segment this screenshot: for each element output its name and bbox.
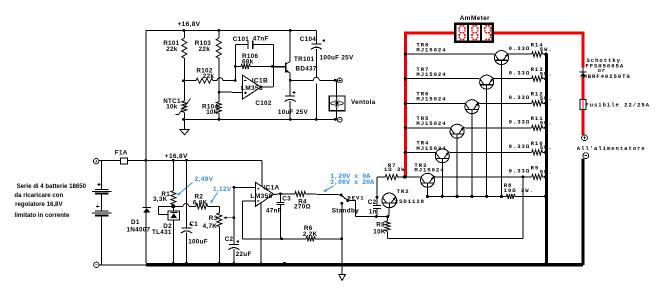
label 47nF (C3): [266, 208, 282, 215]
wire ref node to R2: [175, 204, 196, 207]
wire red main + (right segment): [493, 32, 584, 35]
svg-text:TR2: TR2: [397, 188, 410, 195]
switch DEV1: [340, 194, 350, 205]
label 47nF (C101): [253, 36, 269, 43]
label All alimentatore: [577, 145, 646, 152]
annotation 3,06V x 20A: [330, 179, 375, 187]
label R101 22k: [163, 40, 179, 53]
svg-text:0.33Ω: 0.33Ω: [509, 119, 531, 126]
label R4 270: [294, 198, 311, 210]
label 0.33 (R11): [509, 119, 531, 126]
resistor R2: [196, 204, 219, 209]
resistor R101: [182, 30, 187, 80]
label MJ15024 (TR6): [416, 96, 446, 103]
wire emitter row TR3: [433, 176, 532, 177]
wire fuse to +16.8V node: [128, 160, 146, 162]
wire red base bus vertical: [404, 32, 407, 178]
label C104: [300, 36, 316, 43]
svg-text:regolatore 16,8V: regolatore 16,8V: [15, 201, 63, 208]
svg-text:MBRF40250TG: MBRF40250TG: [583, 73, 630, 80]
wire emitter row TR8: [507, 53, 532, 54]
wire emitter row TR5: [462, 127, 532, 128]
label 10uF 25V (C102): [278, 109, 309, 116]
label 5W (R14): [540, 46, 553, 53]
terminal + All alimentatore: [582, 135, 588, 141]
resistor R8 10K: [385, 217, 390, 239]
label R8 10K: [373, 222, 386, 236]
svg-text:3,3K: 3,3K: [153, 196, 168, 203]
label TR3: [414, 162, 427, 169]
svg-text:MJ15024: MJ15024: [414, 167, 444, 174]
svg-text:5W.: 5W.: [540, 46, 553, 53]
svg-text:1N4007: 1N4007: [127, 227, 151, 234]
wire thick - return vertical: [581, 159, 584, 265]
label 0.33 (R12): [509, 94, 531, 101]
transistor TR7 MJ15024: [480, 75, 494, 89]
label MJ15024 (TR5): [416, 120, 446, 127]
svg-text:+16,8V: +16,8V: [178, 21, 201, 28]
label R102 22k: [196, 67, 214, 80]
node R11 / output bus: [544, 126, 547, 129]
label R8 (power): [504, 182, 513, 189]
wire divider vertical: [233, 187, 235, 244]
label MJ15024 (TR7): [416, 71, 446, 78]
node D2 anode / bus: [172, 262, 175, 265]
svg-text:C101: C101: [233, 36, 249, 43]
svg-text:100uF: 100uF: [188, 239, 208, 246]
label F1A: [115, 149, 128, 156]
svg-text:+16,8V: +16,8V: [165, 153, 188, 160]
label LM358 (IC1A): [250, 193, 272, 200]
resistor R7 1ohm 3W: [377, 175, 404, 180]
label Schottky: [587, 57, 621, 64]
fan Ventola: [329, 80, 345, 119]
svg-text:0.33Ω: 0.33Ω: [509, 45, 531, 52]
node F1A / left vertical / rail: [144, 159, 147, 162]
label D1: [131, 219, 140, 226]
node collector TR6 / bus: [470, 195, 473, 198]
terminal battery + to F1A: [94, 159, 99, 164]
resistor R12 0.33: [532, 101, 546, 106]
svg-text:F1A: F1A: [115, 149, 128, 156]
wire emitter row TR6: [477, 102, 532, 103]
node R106/C101 left: [234, 65, 237, 68]
svg-text:0.33Ω: 0.33Ω: [509, 70, 531, 77]
capacitor C101: [235, 40, 273, 49]
thermistor NTC1: [176, 81, 191, 120]
wire base row TR6: [407, 102, 465, 104]
label R11: [531, 115, 544, 122]
node R10 / output bus: [544, 151, 547, 154]
label R7: [388, 162, 397, 169]
svg-text:10uF 25V: 10uF 25V: [278, 109, 309, 116]
fuse F1A: [120, 158, 127, 164]
transistor TR2 2SD1128: [382, 193, 397, 217]
node C2 / bus: [232, 262, 235, 265]
wire collector TR8: [501, 64, 503, 196]
wire red main + (left segment): [404, 32, 455, 35]
label da ricaricare con: [14, 192, 63, 199]
svg-text:2SD1128: 2SD1128: [395, 198, 425, 205]
svg-text:C1: C1: [189, 221, 198, 228]
wire battery + to fuse: [99, 160, 120, 162]
resistor R104: [216, 81, 221, 120]
node output bus / bottom bus: [545, 262, 549, 266]
label C1: [189, 221, 198, 228]
wire feedback bottom run: [243, 238, 307, 240]
wire collector bus: [428, 195, 507, 197]
transistor TR101: [272, 30, 290, 80]
node top rail / R101: [182, 29, 185, 32]
node collector TR4 / bus: [441, 195, 444, 198]
svg-text:47nF: 47nF: [253, 36, 269, 43]
svg-text:LM358: LM358: [241, 85, 263, 92]
diode D1 1N4007: [143, 160, 151, 263]
node (stray) on bus: [283, 262, 286, 265]
svg-text:limitato in corrente: limitato in corrente: [15, 212, 70, 219]
svg-text:100uF 25V: 100uF 25V: [320, 55, 354, 62]
label 0.33 (R13): [509, 70, 531, 77]
trimmer R3 4,7K: [217, 206, 234, 263]
svg-text:4,7K: 4,7K: [203, 223, 218, 230]
wire collector TR6: [471, 113, 473, 196]
label TR6: [416, 91, 429, 98]
resistor R106: [235, 64, 285, 69]
label MBRF40250TG: [583, 73, 630, 80]
svg-text:MJ15024: MJ15024: [416, 96, 446, 103]
resistor R103: [216, 30, 221, 80]
node IC1A out / C3: [279, 192, 282, 195]
label R106 68k: [242, 53, 258, 66]
op-amp IC1B: [243, 75, 261, 99]
label Fusibile 22/25A: [585, 101, 650, 108]
terminal fan + connector: [337, 78, 342, 83]
svg-text:Fusibile 22/25A: Fusibile 22/25A: [585, 101, 650, 108]
svg-text:270Ω: 270Ω: [294, 203, 311, 210]
capacitor C1 100uF: [181, 160, 192, 263]
wire feedback left vertical (IC1B): [234, 45, 236, 81]
svg-text:C2: C2: [368, 199, 377, 206]
wire red Schottky to fuse to + terminal: [582, 77, 585, 135]
svg-text:C104: C104: [300, 36, 316, 43]
label 1n: [369, 209, 377, 216]
terminal fan - connector: [337, 117, 342, 122]
label MJ15024 (TR4): [416, 145, 446, 152]
capacitor C3 47nF: [277, 194, 285, 239]
label AmMeter: [460, 15, 490, 22]
label MJ15024 (TR3): [414, 167, 444, 174]
node collector TR5 / bus: [456, 195, 459, 198]
svg-text:1Ω 3W: 1Ω 3W: [384, 166, 406, 173]
transistor TR6 MJ15024: [465, 100, 479, 114]
label NTC1 10k: [163, 98, 181, 111]
wire base row TR7: [407, 78, 480, 80]
label 100uF 25V (C104): [320, 55, 354, 62]
resistor R13 0.33: [532, 76, 546, 81]
svg-text:10K: 10K: [373, 228, 386, 235]
label Standby: [332, 207, 359, 214]
svg-text:6,8K: 6,8K: [193, 200, 208, 207]
label TR5: [416, 115, 429, 122]
wire red right vertical to Schottky: [582, 32, 585, 68]
wire feedback vertical (IC1A): [242, 201, 244, 239]
svg-text:22uF: 22uF: [236, 251, 252, 258]
wire TR101 emitter to fan +: [290, 77, 335, 80]
label 1ohm 3W: [384, 166, 406, 173]
transistor TR8 MJ15024: [495, 51, 509, 65]
node R9 / output bus: [544, 175, 547, 178]
wire +16,8V top rail: [146, 29, 316, 31]
capacitor C2 22uF: [228, 240, 239, 263]
label 5W (R10): [540, 144, 553, 151]
label TR101: [294, 56, 315, 63]
svg-text:C3: C3: [282, 196, 291, 203]
label R1 3,3K: [153, 191, 170, 203]
node red bus / TR4 base: [404, 151, 407, 154]
node red bus / TR6 base: [404, 102, 407, 105]
node red bus / TR7 base: [404, 77, 407, 80]
resistor R9 0.33: [532, 174, 546, 179]
wire emitter row TR4: [447, 151, 531, 152]
wire collector TR4: [441, 163, 443, 197]
label R103 22k: [195, 40, 211, 53]
label Ventola: [351, 99, 376, 106]
resistor R6 2,2K: [306, 236, 342, 241]
svg-text:Ventola: Ventola: [351, 99, 376, 106]
label LM358 (IC1B): [241, 85, 263, 92]
node collector bus / output bus: [544, 195, 547, 198]
svg-text:1,12V: 1,12V: [213, 186, 232, 193]
wire DEV1 common to TR2 emitter node: [348, 201, 388, 217]
label 5W (R12): [540, 95, 553, 102]
node TR2 bottom / R8: [386, 215, 389, 218]
label C3: [282, 196, 291, 203]
wire IC1A output: [274, 191, 341, 196]
wire IC1B + input: [219, 91, 243, 93]
wire emitter row TR7: [492, 78, 532, 79]
node C104 / ground wire: [315, 118, 318, 121]
wire base row TR3: [407, 176, 421, 178]
node R103-R104 / IC1B+ tap: [218, 91, 221, 94]
label 5W (R9): [540, 169, 553, 176]
wire battery - to bottom bus: [99, 264, 147, 266]
label R2 6,8K: [193, 194, 208, 207]
node NTC1 / ground wire: [182, 118, 185, 121]
node C102 / ground wire: [289, 118, 292, 121]
node TR2 base / C2 / R7: [376, 196, 379, 199]
svg-text:1n: 1n: [369, 209, 377, 216]
svg-text:0.33Ω: 0.33Ω: [509, 143, 531, 150]
wire collector TR7: [486, 89, 488, 196]
svg-text:2,2K: 2,2K: [303, 231, 318, 238]
node collector TR3 / bus: [426, 195, 429, 198]
ground symbol (bottom): [339, 266, 346, 280]
capacitor C104: [311, 30, 325, 119]
wire left vertical from top rail to F1A node: [145, 30, 147, 160]
node fan + terminal: [334, 79, 337, 82]
svg-text:BD437: BD437: [296, 65, 317, 72]
node TR101 emitter / C102: [289, 79, 292, 82]
svg-text:D1: D1: [131, 219, 140, 226]
label FFSH5065A: [585, 63, 624, 70]
label C2 (1n): [368, 199, 377, 206]
node R3 / bus: [218, 262, 221, 265]
svg-text:TL431: TL431: [152, 229, 172, 236]
node rail / C1: [185, 159, 188, 162]
label C101: [233, 36, 249, 43]
wire collector TR5: [456, 138, 458, 196]
label C2 (22uF): [225, 236, 234, 243]
svg-text:68k: 68k: [242, 59, 254, 66]
label R3 4,7K: [203, 215, 218, 230]
wire IC1B output: [261, 86, 273, 88]
node C1 / bus: [185, 262, 188, 265]
resistor R10 0.33: [532, 150, 546, 155]
resistor R8 10ohm 3W: [506, 194, 545, 199]
label R10: [531, 140, 544, 147]
svg-text:MJ15024: MJ15024: [416, 47, 446, 54]
wire collector TR3: [427, 187, 429, 196]
label C102: [255, 100, 271, 107]
label 0.33 (R14): [509, 45, 531, 52]
label 22uF: [236, 251, 252, 258]
node C2 bottom / DEV1 wire: [375, 215, 378, 218]
annotation 1,12V: [210, 186, 232, 203]
wire divider node to IC1A +: [234, 186, 256, 188]
label 5W (R11): [540, 120, 553, 127]
wire current sense run: [388, 177, 524, 239]
ground symbol (top section): [180, 119, 189, 134]
transistor TR3 MJ15024: [421, 173, 435, 187]
node collector TR7 / bus: [485, 195, 488, 198]
annotation arrow to output wire: [323, 186, 333, 192]
resistor R102: [184, 78, 235, 84]
label Serie di 4 batterie 18650: [17, 183, 87, 190]
node R101/NTC1/R102: [182, 79, 185, 82]
node sense / TR3 row: [522, 176, 525, 179]
svg-text:Serie di 4 batterie 18650: Serie di 4 batterie 18650: [17, 183, 87, 190]
svg-text:10k: 10k: [206, 109, 218, 116]
label R104 10k: [202, 104, 218, 116]
label or: [598, 67, 607, 74]
label TL431: [152, 229, 172, 236]
label limitato in corrente: [15, 212, 70, 219]
svg-text:22k: 22k: [203, 73, 215, 80]
node R104 / ground wire: [218, 118, 221, 121]
svg-text:R9: R9: [531, 164, 540, 171]
annotation 1,20V x 0A: [330, 173, 371, 181]
node rail / R1: [172, 159, 175, 162]
node IC1A V- / bottom bus: [260, 262, 263, 265]
label MJ15024 (TR8): [416, 47, 446, 54]
terminal battery -: [94, 262, 99, 267]
node R1 / D2 / R2 (2,49V ref): [172, 205, 176, 208]
node red bus / R7 / TR3 row: [403, 175, 406, 178]
label IC1A: [263, 184, 279, 191]
label 2SD1128: [395, 198, 425, 205]
node R14 / output bus: [544, 53, 547, 56]
svg-text:2,49V: 2,49V: [195, 176, 214, 183]
node red bus / TR3 base: [404, 175, 407, 178]
capacitor C102 10uF: [285, 80, 296, 119]
svg-text:22k: 22k: [199, 46, 211, 53]
node R3 wiper / C2: [232, 216, 235, 219]
shunt regulator D2 TL431: [159, 206, 180, 263]
svg-text:47nF: 47nF: [266, 208, 282, 215]
label +16,8V (top): [178, 21, 201, 28]
svg-text:MJ15024: MJ15024: [416, 71, 446, 78]
wire IC1A inverting input: [243, 200, 256, 202]
wire standby node to bottom bus: [341, 239, 343, 263]
label BD437: [296, 65, 317, 72]
svg-text:R3: R3: [209, 215, 218, 222]
capacitor C2 1n: [373, 177, 381, 217]
svg-text:da ricaricare con: da ricaricare con: [14, 192, 63, 199]
svg-text:LM358: LM358: [250, 193, 272, 200]
label TR4: [416, 140, 429, 147]
label 1N4007: [127, 227, 151, 234]
wire thick output bus vertical: [543, 54, 547, 263]
label R14: [531, 42, 544, 49]
wire thick bottom bus: [146, 263, 583, 267]
svg-text:MJ15024: MJ15024: [416, 120, 446, 127]
svg-text:3,06V x 20A: 3,06V x 20A: [330, 179, 375, 187]
svg-text:10Ω 3W.: 10Ω 3W.: [504, 187, 534, 194]
transistor TR5 MJ15024: [450, 124, 464, 138]
label R9: [531, 164, 540, 171]
wire base row TR8: [407, 53, 495, 55]
label R6 2,2K: [303, 225, 318, 238]
label 5W (R13): [540, 71, 553, 78]
label TR8: [416, 42, 429, 49]
ammeter 7-segment display: [455, 24, 492, 42]
node top rail / R103: [217, 29, 220, 32]
label R12: [531, 91, 544, 98]
battery 4x18650: [92, 161, 112, 265]
svg-text:22k: 22k: [166, 46, 178, 53]
label D2: [163, 223, 172, 230]
label TR7: [416, 66, 429, 73]
label R13: [531, 66, 544, 73]
resistor R14 0.33: [532, 52, 546, 57]
label 0.33 (R10): [509, 143, 531, 150]
label +16,8V (mid): [165, 153, 188, 160]
wire +16,8V mid rail: [146, 159, 262, 161]
wire DEV1 standby contact down: [341, 203, 343, 239]
node red bus / TR5 base: [404, 126, 407, 129]
label IC1B: [252, 77, 268, 84]
resistor R11 0.33: [532, 125, 546, 130]
svg-text:0.33Ω: 0.33Ω: [509, 94, 531, 101]
svg-text:MJ15024: MJ15024: [416, 145, 446, 152]
svg-text:10k: 10k: [166, 104, 178, 111]
wire top ground bus: [184, 118, 336, 120]
annotation 2,49V: [177, 176, 214, 196]
label DEV1: [347, 195, 364, 202]
label 100uF (C1): [188, 239, 208, 246]
node C3 / feedback: [280, 237, 283, 240]
svg-text:IC1A: IC1A: [263, 184, 279, 191]
wire base row TR4: [407, 151, 436, 153]
node R12 / output bus: [544, 102, 547, 105]
label TR2: [397, 188, 410, 195]
node 1,12V divider / IC1A+: [233, 186, 236, 189]
svg-text:All'alimentatore: All'alimentatore: [577, 145, 646, 152]
label 10ohm 3W: [504, 187, 534, 194]
node top rail / TR101 collector: [289, 29, 292, 32]
transistor TR4 MJ15024: [435, 149, 449, 163]
node standby ground on bus: [340, 263, 343, 266]
